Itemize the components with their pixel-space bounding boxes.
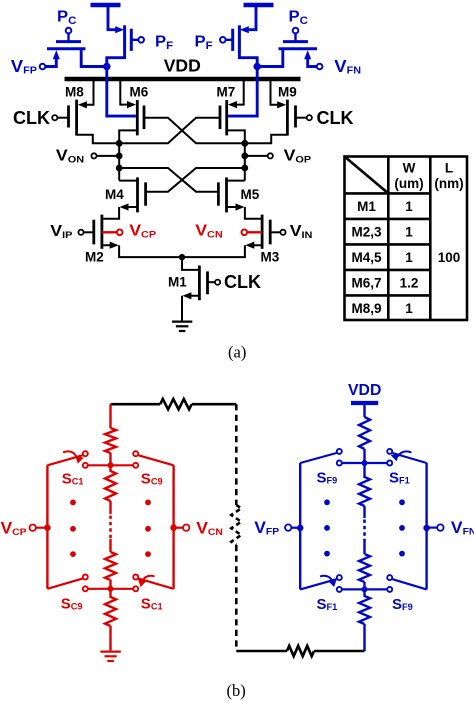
- table grid: [345, 157, 468, 321]
- red rail left: [46, 465, 48, 589]
- blue wire down to M6: [107, 67, 136, 117]
- resistor RC2: [105, 465, 116, 501]
- blue ladder dashes: [363, 506, 365, 554]
- wire M1 source: [182, 292, 199, 321]
- svg-text:SC1: SC1: [62, 470, 84, 487]
- wire M9 drain: [245, 135, 288, 144]
- ground (M1): [172, 322, 192, 331]
- switch SC9 bottom-left: [47, 575, 87, 592]
- red ladder dashes: [109, 501, 111, 552]
- wire M6 source: [120, 81, 136, 108]
- right internal bus: [244, 142, 246, 181]
- label M1: [168, 275, 187, 290]
- terminal CLK left: [13, 108, 69, 128]
- svg-text:L: L: [445, 161, 453, 176]
- svg-text:SF9: SF9: [317, 469, 338, 486]
- label PF right: [195, 33, 213, 52]
- svg-text:VCP: VCP: [1, 519, 27, 538]
- resistor RC3: [105, 552, 116, 580]
- svg-text:M4: M4: [105, 187, 124, 202]
- label PC right: [289, 8, 308, 27]
- wire PC-right drain to node: [257, 49, 283, 67]
- wire to blue node1: [363, 449, 365, 463]
- node red bottom row: [88, 586, 133, 592]
- wire M6 gate to right node (upper X): [144, 118, 245, 144]
- svg-text:M3: M3: [261, 250, 280, 265]
- terminal VCP (red tap): [102, 222, 156, 241]
- transistor M5: [218, 177, 226, 212]
- wire M2 source to tail: [102, 242, 182, 258]
- svg-text:1: 1: [405, 224, 413, 239]
- wire PC-left drain to node: [81, 49, 107, 67]
- node blue top row: [342, 460, 387, 466]
- terminal VON: [56, 147, 119, 166]
- VDD label: [164, 55, 201, 75]
- label M5: [241, 187, 260, 202]
- svg-text:M1: M1: [168, 275, 187, 290]
- terminal CLK right top: [296, 108, 354, 128]
- label PC left: [57, 8, 76, 27]
- caption (a): [228, 343, 246, 362]
- wire M8 drain: [77, 135, 120, 144]
- svg-text:M1: M1: [357, 199, 376, 214]
- wire supply to PF-left source: [108, 7, 124, 33]
- svg-text:M8: M8: [65, 85, 84, 100]
- switch SC1 top-left: [47, 451, 87, 468]
- node right blue junction: [253, 63, 261, 71]
- svg-text:VDD: VDD: [164, 55, 201, 75]
- wire M7 drain: [227, 130, 245, 143]
- terminal CLK bottom: [208, 272, 262, 292]
- transistor PC left (horizontal): [47, 28, 86, 49]
- transistor M6: [137, 100, 144, 135]
- supply bar (right blue cell): [244, 3, 274, 7]
- terminal VCN (red tap): [195, 222, 262, 241]
- svg-text:(nm): (nm): [434, 176, 463, 191]
- resistor RF4: [359, 589, 370, 651]
- transistor M3: [262, 215, 270, 249]
- svg-text:(um): (um): [394, 176, 423, 191]
- svg-text:VOP: VOP: [284, 147, 312, 166]
- wire red ladder top: [109, 404, 111, 428]
- svg-text:VFN: VFN: [451, 518, 474, 537]
- terminal VCP (b): [1, 519, 51, 538]
- blue selection dots: [324, 499, 405, 556]
- wire M3 source to tail: [182, 242, 262, 258]
- wire M5 drain: [227, 180, 245, 182]
- table header W(um): [394, 161, 423, 192]
- red selection dots: [70, 500, 151, 557]
- wire PF-right drain to node: [239, 55, 257, 67]
- label PF left: [155, 33, 173, 52]
- transistor M8: [69, 100, 77, 136]
- switch SC1 bottom-right: [133, 575, 173, 592]
- resistor RF1: [359, 417, 370, 449]
- svg-text:VCN: VCN: [195, 222, 223, 241]
- terminal VIP: [50, 222, 94, 241]
- svg-text:SC9: SC9: [61, 595, 83, 612]
- table rows text: [351, 199, 418, 316]
- svg-text:W: W: [403, 161, 416, 176]
- wire top interconnect: [111, 403, 237, 406]
- terminal VCN (b): [170, 519, 223, 538]
- wire to blue node2: [363, 582, 365, 589]
- label SC9 bottom-left: [61, 595, 83, 612]
- svg-text:SF9: SF9: [392, 596, 413, 613]
- svg-text:(a): (a): [228, 343, 246, 362]
- svg-text:SF1: SF1: [317, 596, 338, 613]
- node red top row: [88, 462, 133, 468]
- terminal VFN (b): [423, 518, 474, 537]
- resistor RC1: [105, 428, 116, 453]
- resistor RF3: [359, 554, 370, 582]
- svg-text:PC: PC: [57, 8, 76, 27]
- wire M9 source: [271, 81, 287, 108]
- svg-text:VCP: VCP: [129, 222, 156, 241]
- label M3: [261, 250, 280, 265]
- terminal VIN: [270, 222, 312, 241]
- wire tail to M1 drain: [182, 257, 199, 270]
- node left blue junction: [103, 63, 111, 71]
- terminal VOP: [245, 147, 312, 166]
- VDD bar (b): [351, 401, 378, 405]
- svg-text:PF: PF: [155, 33, 173, 52]
- svg-text:CLK: CLK: [317, 108, 354, 128]
- wire to red node1: [109, 453, 111, 465]
- label M4: [105, 187, 124, 202]
- svg-text:(b): (b): [227, 681, 246, 700]
- resistor bottom (black): [287, 646, 314, 656]
- wire M7 gate to left node (upper X): [119, 118, 220, 144]
- wire M7 source: [228, 81, 244, 108]
- label SC9 top-right: [141, 470, 163, 487]
- blue rail right: [425, 463, 427, 589]
- svg-text:1: 1: [405, 301, 413, 316]
- blue rail left: [299, 463, 301, 589]
- blue wire down to M7: [228, 67, 257, 117]
- svg-text:SC1: SC1: [141, 595, 163, 612]
- node right bus dots: [241, 140, 248, 172]
- svg-text:VFN: VFN: [334, 57, 361, 77]
- terminal VFP: [11, 50, 60, 76]
- svg-text:VCN: VCN: [196, 519, 223, 538]
- wire M5 gate to left node (lower X): [119, 168, 218, 192]
- wire to red node2: [109, 580, 111, 589]
- ground (red ladder): [100, 652, 120, 661]
- switch SF1 bottom-left: [300, 575, 342, 592]
- terminal VFP (b): [254, 518, 303, 537]
- transistor M7: [220, 100, 227, 135]
- supply bar (left blue cell): [91, 3, 121, 7]
- left internal bus: [118, 142, 120, 181]
- svg-text:1.2: 1.2: [400, 275, 419, 290]
- terminal VFN: [304, 50, 361, 76]
- svg-text:1: 1: [405, 199, 413, 214]
- label SF9 bottom-right: [392, 596, 413, 613]
- svg-text:PC: PC: [289, 8, 308, 27]
- red rail right: [172, 465, 174, 589]
- wire blue ladder top: [363, 405, 365, 417]
- label M9: [278, 85, 297, 100]
- node left bus dots: [116, 140, 123, 172]
- label SF9 top-left: [317, 469, 338, 486]
- transistor M1: [199, 266, 207, 301]
- resistor RF2: [359, 463, 370, 506]
- svg-text:M2,3: M2,3: [351, 224, 382, 239]
- node tail junction: [179, 254, 185, 260]
- transistor PC right (horizontal): [279, 28, 318, 49]
- wire supply to PF-right source: [240, 7, 256, 33]
- table header L(nm): [434, 161, 463, 192]
- VDD rail: [65, 77, 301, 82]
- svg-text:100: 100: [438, 250, 461, 265]
- wire PF-left drain to node: [107, 55, 125, 67]
- label M2: [85, 250, 104, 265]
- svg-text:M7: M7: [217, 85, 236, 100]
- transistor M2: [94, 215, 102, 249]
- switch SF9 bottom-right: [387, 575, 426, 592]
- node blue bottom row: [342, 586, 387, 592]
- svg-text:CLK: CLK: [13, 108, 50, 128]
- svg-text:M6: M6: [130, 85, 149, 100]
- wire M8 source: [78, 81, 94, 108]
- svg-text:VDD: VDD: [348, 382, 381, 399]
- label SC1 top-left: [62, 470, 84, 487]
- svg-text:M9: M9: [278, 85, 297, 100]
- dashed line: [231, 404, 241, 651]
- svg-text:VIP: VIP: [50, 222, 72, 241]
- switch SF1 top-right: [387, 449, 426, 466]
- wire M6 drain: [119, 130, 137, 143]
- label M8: [65, 85, 84, 100]
- svg-text:VFP: VFP: [11, 57, 37, 77]
- transistor M4: [138, 177, 146, 212]
- label SF1 top-right: [389, 469, 410, 486]
- switch SF9 top-left: [300, 449, 342, 466]
- svg-text:VON: VON: [56, 147, 84, 166]
- transistor PF right (channel+gate): [220, 25, 239, 54]
- wire bottom interconnect: [236, 650, 364, 653]
- transistor PF left (channel+gate): [125, 25, 144, 54]
- wire M4 drain: [119, 180, 137, 182]
- table value 100: [438, 250, 461, 265]
- svg-text:M2: M2: [85, 250, 104, 265]
- wire M5 source to M3 drain: [227, 203, 262, 218]
- label SC1 bottom-right: [141, 595, 163, 612]
- resistor RC4: [105, 589, 116, 651]
- resistor top (black): [160, 399, 192, 409]
- wire M4 gate to right node (lower X): [146, 168, 245, 192]
- svg-text:VIN: VIN: [290, 222, 313, 241]
- label VDD (b): [348, 382, 381, 399]
- label M6: [130, 85, 149, 100]
- label SF1 bottom-left: [317, 596, 338, 613]
- svg-text:M8,9: M8,9: [351, 301, 381, 316]
- svg-text:SF1: SF1: [389, 469, 410, 486]
- svg-text:M5: M5: [241, 187, 260, 202]
- label M7: [217, 85, 236, 100]
- svg-text:SC9: SC9: [141, 470, 163, 487]
- switch SC9 top-right: [133, 451, 173, 468]
- svg-text:M6,7: M6,7: [351, 275, 381, 290]
- svg-text:CLK: CLK: [224, 272, 261, 292]
- svg-text:VFP: VFP: [254, 518, 279, 537]
- transistor M9: [287, 100, 295, 136]
- svg-text:PF: PF: [195, 33, 213, 52]
- svg-text:1: 1: [405, 250, 413, 265]
- svg-text:M4,5: M4,5: [351, 250, 382, 265]
- wire M4 source to M2 drain: [103, 203, 138, 218]
- caption (b): [227, 681, 246, 700]
